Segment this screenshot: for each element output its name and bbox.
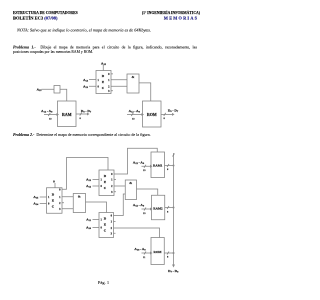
- svg-text:RAM: RAM: [62, 112, 72, 117]
- svg-text:8: 8: [167, 168, 169, 171]
- svg-text:1: 1: [108, 79, 110, 82]
- svg-text:D0 - D7: D0 - D7: [168, 109, 179, 114]
- svg-text:1: 1: [111, 221, 113, 224]
- svg-text:A14: A14: [33, 202, 39, 207]
- svg-text:A13: A13: [83, 84, 89, 89]
- svg-text:0: 0: [53, 180, 55, 184]
- svg-text:8: 8: [167, 210, 169, 213]
- svg-text:2: 2: [111, 185, 113, 188]
- svg-text:A11: A11: [86, 218, 92, 223]
- svg-text:C: C: [52, 204, 55, 208]
- svg-text:&: &: [78, 195, 81, 199]
- svg-text:D0 - D7: D0 - D7: [81, 109, 92, 114]
- svg-text:D: D: [102, 74, 105, 78]
- svg-text:8: 8: [164, 117, 166, 120]
- svg-text:ROM: ROM: [147, 112, 157, 117]
- svg-text:3: 3: [59, 208, 61, 211]
- svg-text:E: E: [104, 222, 107, 226]
- svg-text:8: 8: [167, 256, 169, 259]
- svg-text:0: 0: [111, 173, 113, 176]
- svg-text:RAM1: RAM1: [153, 164, 163, 168]
- svg-text:0: 0: [108, 73, 110, 76]
- svg-text:A10: A10: [86, 226, 92, 231]
- svg-text:A15: A15: [33, 195, 39, 200]
- svg-text:8: 8: [80, 117, 82, 120]
- svg-text:A15: A15: [37, 88, 43, 93]
- svg-text:0: 0: [101, 227, 103, 230]
- svg-text:1: 1: [101, 179, 103, 182]
- svg-text:1: 1: [48, 196, 50, 199]
- svg-text:0: 0: [59, 188, 61, 191]
- svg-text:C: C: [104, 186, 107, 190]
- svg-text:A13: A13: [86, 178, 92, 183]
- svg-text:A12 - A0: A12 - A0: [129, 109, 141, 114]
- svg-text:2: 2: [108, 85, 110, 88]
- svg-text:A12: A12: [86, 184, 92, 189]
- svg-text:0: 0: [111, 215, 113, 218]
- svg-text:&: &: [132, 75, 135, 79]
- svg-text:E: E: [104, 180, 107, 184]
- svg-text:C: C: [102, 86, 105, 90]
- svg-text:11: 11: [143, 256, 146, 259]
- svg-text:13: 13: [49, 118, 52, 121]
- svg-text:13: 13: [132, 118, 135, 121]
- svg-text:D7 - D0: D7 - D0: [168, 269, 179, 274]
- svg-text:1: 1: [101, 219, 103, 222]
- svg-text:0: 0: [48, 203, 50, 206]
- svg-text:2: 2: [59, 202, 61, 205]
- svg-text:1: 1: [59, 196, 61, 199]
- svg-text:A12 - A0: A12 - A0: [133, 161, 145, 166]
- svg-text:E: E: [52, 198, 55, 202]
- svg-text:1: 1: [111, 179, 113, 182]
- svg-text:2: 2: [111, 227, 113, 230]
- svg-text:0: 0: [101, 185, 103, 188]
- svg-text:D: D: [104, 216, 107, 220]
- svg-text:0: 0: [98, 85, 100, 88]
- svg-text:3: 3: [111, 191, 113, 194]
- svg-text:3: 3: [108, 90, 110, 93]
- svg-text:A12 - A0: A12 - A0: [41, 109, 53, 114]
- svg-text:A10 - A0: A10 - A0: [134, 247, 146, 252]
- svg-text:13: 13: [143, 169, 146, 172]
- svg-text:E: E: [102, 80, 105, 84]
- svg-text:A15: A15: [101, 62, 107, 67]
- svg-text:13: 13: [143, 212, 146, 215]
- svg-text:1: 1: [98, 79, 100, 82]
- svg-text:3: 3: [111, 232, 113, 235]
- svg-text:RAM2: RAM2: [153, 207, 163, 211]
- svg-text:&: &: [129, 181, 132, 185]
- svg-text:D: D: [52, 192, 55, 196]
- svg-text:A12 - A0: A12 - A0: [133, 203, 145, 208]
- svg-text:ROM: ROM: [154, 250, 162, 254]
- svg-text:D: D: [104, 174, 107, 178]
- svg-text:A14: A14: [83, 78, 89, 83]
- svg-text:C: C: [104, 228, 107, 232]
